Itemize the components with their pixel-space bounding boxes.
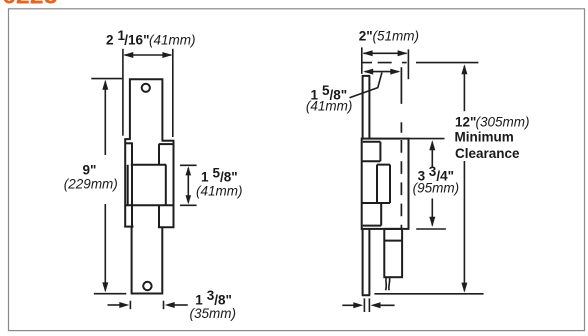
left inner step [125,142,133,144]
right inner step [159,143,174,145]
extension line right [172,49,174,137]
svg-text:(35mm): (35mm) [190,306,237,321]
top sub-box [362,142,381,161]
faceplate thickness dimension (side bottom) [342,298,394,312]
svg-text:1: 1 [201,170,209,185]
strike body wide middle section [124,139,174,228]
faceplate top section [129,79,164,140]
dashed top extension [362,62,408,64]
right inner vertical lower [158,205,160,227]
2 1/16 dimension [123,49,173,137]
left inner vertical [131,143,133,226]
svg-text:9": 9" [83,163,97,178]
extension line left [122,49,124,136]
12" minimum clearance dimension [374,66,483,294]
hidden (dashed) jamb line [400,67,402,229]
svg-text:/8": /8" [220,170,238,185]
svg-text:(41mm): (41mm) [149,33,196,48]
3 3/4 dimension [409,139,446,229]
top screw hole [142,84,150,92]
keeper right edge [165,165,167,206]
9" dimension [91,79,126,294]
svg-text:/16": /16" [124,33,149,48]
keeper top [131,164,166,166]
keeper left extra line [127,165,129,206]
bottom extension [94,293,127,295]
keeper bottom [125,204,173,206]
svg-text:Clearance: Clearance [455,146,520,161]
right top step [162,140,175,142]
svg-text:(41mm): (41mm) [196,184,243,199]
strike body outline [362,139,409,229]
svg-text:12": 12" [455,115,476,130]
solid top extension to 12" dim [416,62,478,64]
bottom screw hole [143,282,151,290]
bottom join right [158,226,175,228]
svg-text:(41mm): (41mm) [306,99,353,114]
1 5/8 dimension (side) [365,71,399,73]
svg-text:(305mm): (305mm) [476,115,530,130]
svg-text:6223: 6223 [2,0,58,10]
leader line [350,73,382,98]
dim line lower segment [104,204,106,291]
svg-text:Minimum: Minimum [455,130,514,145]
1 5/8 dimension (front) [180,165,197,205]
top extension [91,78,122,80]
faceplate bottom segment [362,229,371,295]
left outer edge [124,139,126,227]
svg-text:(51mm): (51mm) [373,29,420,44]
svg-text:(95mm): (95mm) [413,181,460,196]
svg-text:2: 2 [106,33,114,48]
svg-text:(229mm): (229mm) [64,177,118,192]
faceplate bottom section [131,227,164,294]
svg-text:2": 2" [359,29,373,44]
1 3/8 dimension (front bottom) [108,301,188,310]
right outer edge [173,141,175,228]
dim line upper segment [104,82,106,156]
dim line [125,54,172,56]
right inner vertical upper [158,144,160,165]
2" dimension (side) [362,47,409,79]
bottom sub-box [363,203,382,226]
left top step [124,138,130,140]
bottom join left [124,226,133,228]
faceplate top segment [362,76,371,138]
solenoid housing [384,229,402,277]
wires [385,278,388,291]
mid sub-box [362,165,390,203]
